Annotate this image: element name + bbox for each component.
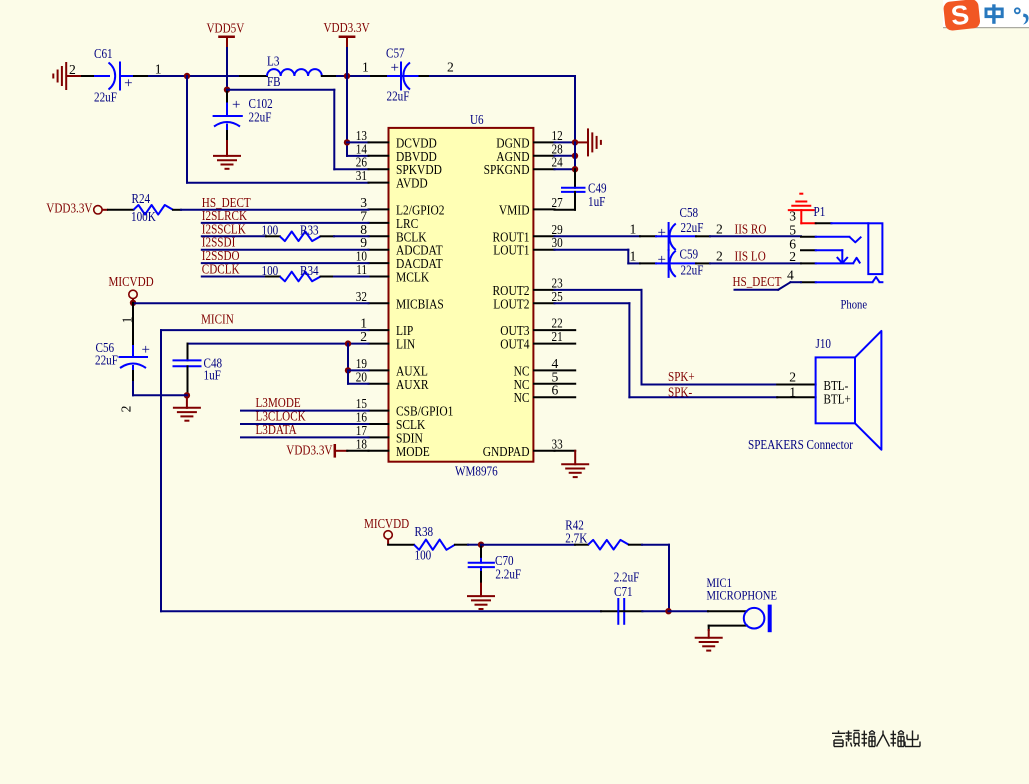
capacitor C57 xyxy=(371,60,420,90)
label WM8976 xyxy=(455,464,498,479)
svg-text:20: 20 xyxy=(356,369,367,384)
label U6 xyxy=(470,112,484,127)
svg-text:+: + xyxy=(391,60,399,76)
label 100 (R38) xyxy=(415,548,432,563)
label 100 (R34) xyxy=(262,263,279,278)
svg-text:U6: U6 xyxy=(470,112,484,127)
label J10 xyxy=(816,336,832,351)
svg-text:1: 1 xyxy=(630,221,637,236)
svg-text:AUXR: AUXR xyxy=(396,378,429,393)
wire xyxy=(642,545,669,612)
svg-text:2: 2 xyxy=(716,221,723,236)
resistor R42 xyxy=(575,540,642,550)
svg-text:CDCLK: CDCLK xyxy=(202,262,240,277)
svg-text:1uF: 1uF xyxy=(588,194,606,209)
wire xyxy=(346,48,348,76)
label C70 xyxy=(495,553,514,568)
wire xyxy=(555,141,576,143)
svg-text:VMID: VMID xyxy=(499,203,530,218)
pin 5 NC (U6 right) xyxy=(514,369,576,393)
label R42 xyxy=(565,518,584,533)
pin number 3 (P1) xyxy=(789,208,796,223)
pin 11 MCLK (U6 left) xyxy=(356,262,429,286)
wire xyxy=(202,222,369,224)
wire xyxy=(82,75,95,77)
wire xyxy=(696,235,801,237)
wire xyxy=(642,610,668,612)
power port MICVDD (bottom) xyxy=(364,516,409,545)
label 22uF (C58) xyxy=(681,220,704,235)
svg-text:R38: R38 xyxy=(415,524,434,539)
label C57 xyxy=(386,46,405,61)
svg-text:27: 27 xyxy=(552,195,563,210)
svg-text:22uF: 22uF xyxy=(94,89,117,104)
label P1 xyxy=(814,204,826,219)
resistor R38 xyxy=(388,540,468,550)
wire xyxy=(624,610,642,612)
net label I2SLRCK xyxy=(202,208,247,223)
wire xyxy=(481,544,575,546)
junction dot xyxy=(572,153,578,159)
pin number 6 (P1) xyxy=(789,237,796,252)
net label CDCLK xyxy=(202,262,240,277)
svg-text:1: 1 xyxy=(630,248,637,263)
svg-text:R34: R34 xyxy=(300,263,319,278)
svg-text:R24: R24 xyxy=(132,191,151,206)
net label SPK+ xyxy=(668,369,695,384)
connector P1 phone jack body xyxy=(816,223,883,274)
resistor R33 xyxy=(266,232,334,242)
svg-text:+: + xyxy=(658,225,666,241)
junction dot xyxy=(130,300,136,306)
wire xyxy=(202,235,266,237)
wire xyxy=(187,76,369,183)
net label L3MODE xyxy=(256,395,301,410)
wire xyxy=(735,282,802,290)
wire xyxy=(133,382,187,395)
wire xyxy=(227,90,369,170)
svg-text:BTL+: BTL+ xyxy=(824,391,851,406)
svg-text:FB: FB xyxy=(267,74,281,89)
label Phone xyxy=(841,297,868,312)
wire xyxy=(202,262,369,264)
wire xyxy=(347,450,368,452)
ground (below C70) xyxy=(467,584,495,609)
pin 23 ROUT2 (U6 right) xyxy=(493,275,563,299)
pin 2 LIN (U6 left) xyxy=(360,329,415,353)
label 22uF (C57) xyxy=(387,89,410,104)
label FB xyxy=(267,74,281,89)
pin 8 BCLK (U6 left) xyxy=(360,222,426,246)
label 2.2uF (C70) xyxy=(495,567,521,582)
capacitor C71 xyxy=(618,599,624,624)
label R33 xyxy=(300,223,319,238)
net label I2SSDI xyxy=(202,235,236,250)
pin 17 SDIN (U6 left) xyxy=(356,423,423,447)
svg-text:2: 2 xyxy=(360,329,367,344)
svg-text:MCLK: MCLK xyxy=(396,271,429,286)
svg-text:+: + xyxy=(124,76,132,92)
svg-text:2: 2 xyxy=(69,62,76,77)
wire xyxy=(555,303,778,397)
capacitor C49 xyxy=(555,169,585,210)
label 22uF (C61) xyxy=(94,89,117,104)
svg-text:2.2uF: 2.2uF xyxy=(495,567,521,582)
pin 4 NC (U6 right) xyxy=(514,356,576,380)
capacitor C48 xyxy=(174,344,201,396)
svg-text:2: 2 xyxy=(119,405,134,412)
wire xyxy=(468,544,481,546)
junction dot xyxy=(665,608,671,614)
label 100K (R24) xyxy=(131,209,156,224)
svg-text:P1: P1 xyxy=(814,204,826,219)
svg-text:MICVDD: MICVDD xyxy=(364,516,409,531)
junction dot xyxy=(184,73,190,79)
label MICROPHONE xyxy=(707,588,778,603)
power port VDD3.3V (top) xyxy=(324,20,370,48)
pin 21 OUT4 (U6 right) xyxy=(500,329,575,353)
pin 1 LIP (U6 left) xyxy=(360,316,413,340)
svg-text:24: 24 xyxy=(552,155,563,170)
wire xyxy=(202,276,266,278)
pin 7 LRC (U6 left) xyxy=(360,208,418,232)
pin number 4 (P1) xyxy=(787,267,794,282)
net label L3DATA xyxy=(256,422,297,437)
wire xyxy=(348,369,369,371)
svg-text:3: 3 xyxy=(789,208,796,223)
label C61 xyxy=(94,46,113,61)
wire xyxy=(347,344,349,371)
capacitor C56 xyxy=(120,303,150,382)
pin 2 contact (P1) xyxy=(801,258,860,264)
label 2.7K (R42) xyxy=(565,531,587,546)
pin 27 VMID (U6 right) xyxy=(499,195,563,219)
capacitor C58 xyxy=(640,223,696,250)
svg-text:SPK-: SPK- xyxy=(668,384,693,399)
svg-text:WM8976: WM8976 xyxy=(455,464,498,479)
svg-text:25: 25 xyxy=(552,289,563,304)
label C48 xyxy=(204,356,223,371)
resistor R34 xyxy=(266,272,334,282)
wire xyxy=(430,76,575,142)
wire xyxy=(555,250,641,264)
pin 33 GNDPAD (U6 right) xyxy=(483,436,563,460)
svg-text:MODE: MODE xyxy=(396,445,430,460)
svg-text:L3: L3 xyxy=(267,54,280,69)
junction dot xyxy=(345,367,351,373)
wire xyxy=(161,610,601,612)
wire xyxy=(348,370,369,383)
power port VDD3.3V (MODE pin) xyxy=(286,442,347,457)
title text (Chinese): audio input output xyxy=(832,731,920,747)
capacitor C59 xyxy=(640,250,696,277)
pin 28 AGND (U6 right) xyxy=(496,141,563,165)
net label I2SSDO xyxy=(202,248,240,263)
wire xyxy=(337,75,371,77)
ground (MIC1) xyxy=(695,630,723,651)
label 22uF (C59) xyxy=(681,262,704,277)
wire xyxy=(149,75,240,77)
junction dot xyxy=(572,139,578,145)
svg-text:22uF: 22uF xyxy=(95,353,118,368)
svg-text:22uF: 22uF xyxy=(681,220,704,235)
pin 13 DCVDD (U6 left) xyxy=(356,128,437,152)
wire xyxy=(226,48,228,90)
svg-text:LOUT2: LOUT2 xyxy=(493,297,529,312)
svg-text:S: S xyxy=(950,0,971,31)
pin number 2 (C59) xyxy=(716,248,723,263)
svg-text:C58: C58 xyxy=(680,205,699,220)
svg-text:22uF: 22uF xyxy=(387,89,410,104)
ground (below C48) xyxy=(173,395,201,420)
svg-text:VDD5V: VDD5V xyxy=(207,20,245,35)
capacitor C61 xyxy=(95,63,134,92)
pin 6 switch contact (P1) xyxy=(801,250,848,263)
op-amp U6 WM8976 body xyxy=(389,128,534,462)
pin 20 AUXR (U6 left) xyxy=(356,369,429,393)
pin number 1 (C59) xyxy=(630,248,637,263)
pin number 2 (C61) xyxy=(69,62,76,77)
junction dot xyxy=(344,139,350,145)
pin 2 (J10) xyxy=(777,369,815,384)
svg-text:GNDPAD: GNDPAD xyxy=(483,445,530,460)
microphone MIC1 xyxy=(708,605,772,633)
label C56 xyxy=(96,340,115,355)
ground (below C102) xyxy=(213,141,241,169)
svg-text:2: 2 xyxy=(447,60,454,75)
label 22uF (C56) xyxy=(95,353,118,368)
svg-text:2.7K: 2.7K xyxy=(565,531,587,546)
wire xyxy=(188,343,369,345)
wire xyxy=(555,142,576,169)
svg-text:1uF: 1uF xyxy=(204,368,222,383)
svg-text:30: 30 xyxy=(552,235,563,250)
svg-text:AVDD: AVDD xyxy=(396,177,428,192)
svg-text:R33: R33 xyxy=(300,223,319,238)
svg-text:SPEAKERS Connector: SPEAKERS Connector xyxy=(748,437,853,452)
svg-text:IIS RO: IIS RO xyxy=(735,221,767,236)
pin number 2 (C56) xyxy=(119,405,134,412)
svg-text:MICROPHONE: MICROPHONE xyxy=(707,588,778,603)
pin 15 CSB/GPIO1 (U6 left) xyxy=(356,396,454,420)
label 2.2uF (C71) xyxy=(614,570,640,585)
wire xyxy=(669,610,709,612)
svg-text:100K: 100K xyxy=(131,209,156,224)
junction dot xyxy=(345,340,351,346)
wire xyxy=(181,209,369,211)
label 100 (R33) xyxy=(262,223,279,238)
label MIC1 xyxy=(707,575,733,590)
svg-text:+: + xyxy=(232,97,240,113)
pin number 5 (P1) xyxy=(789,223,796,238)
net label I2SSCLK xyxy=(202,221,246,236)
connector J10 speaker body xyxy=(816,331,882,450)
ground (GNDPAD) xyxy=(555,451,590,477)
label 1uF (C49) xyxy=(588,194,606,209)
svg-text:32: 32 xyxy=(356,289,367,304)
pin 6 NC (U6 right) xyxy=(514,383,576,407)
svg-text:11: 11 xyxy=(356,262,367,277)
pin 18 MODE (U6 left) xyxy=(356,436,430,460)
pin 30 LOUT1 (U6 right) xyxy=(493,235,563,259)
net label HS_DECT xyxy=(202,195,251,210)
capacitor C70 xyxy=(469,545,494,584)
net label L3CLOCK xyxy=(256,409,306,424)
watermark blue zhong glyph xyxy=(986,4,1002,24)
svg-text:100: 100 xyxy=(262,263,279,278)
pin 22 OUT3 (U6 right) xyxy=(500,316,575,340)
pin number 1 (C58) xyxy=(630,221,637,236)
svg-text:SPKGND: SPKGND xyxy=(484,163,530,178)
pin 24 SPKGND (U6 right) xyxy=(484,155,563,179)
junction dot xyxy=(224,87,230,93)
svg-text:+: + xyxy=(142,342,150,358)
pin 5 contact (P1) xyxy=(801,237,861,243)
ground (DGND) xyxy=(575,128,601,156)
pin number 2 (P1) xyxy=(789,249,796,264)
pin 4 sleeve contact (P1) xyxy=(801,277,882,282)
label SPEAKERS Connector xyxy=(748,437,853,452)
svg-text:100: 100 xyxy=(262,223,279,238)
pin 10 DACDAT (U6 left) xyxy=(356,249,443,273)
svg-text:C61: C61 xyxy=(94,46,113,61)
pin 25 LOUT2 (U6 right) xyxy=(493,289,563,313)
pin number 1 (C56) xyxy=(120,317,135,324)
svg-text:1: 1 xyxy=(362,60,369,75)
label C59 xyxy=(680,247,699,262)
label 22uF (C102) xyxy=(249,110,272,125)
label C49 xyxy=(588,181,607,196)
power port VDD5V xyxy=(207,20,245,48)
svg-text:C57: C57 xyxy=(386,46,405,61)
svg-text:21: 21 xyxy=(552,329,563,344)
svg-text:6: 6 xyxy=(552,383,559,398)
net label MICIN xyxy=(201,312,234,327)
wire xyxy=(133,302,369,304)
wire xyxy=(601,610,618,612)
svg-text:VDD3.3V: VDD3.3V xyxy=(324,20,370,35)
wire xyxy=(420,75,431,77)
net label IIS_RO xyxy=(735,221,767,236)
label R34 xyxy=(300,263,319,278)
resistor R24 xyxy=(108,205,181,215)
svg-text:2: 2 xyxy=(789,369,796,384)
svg-text:MICVDD: MICVDD xyxy=(109,274,154,289)
svg-text:22uF: 22uF xyxy=(249,110,272,125)
svg-text:VDD3.3V: VDD3.3V xyxy=(286,442,332,457)
ground (left of C61) xyxy=(53,62,82,90)
pin 32 MICBIAS (U6 left) xyxy=(356,289,444,313)
svg-text:4: 4 xyxy=(787,267,794,282)
wire xyxy=(241,410,369,412)
pin 12 DGND (U6 right) xyxy=(496,128,563,152)
pin number 1 (C57) xyxy=(362,60,369,75)
svg-text:L3DATA: L3DATA xyxy=(256,422,297,437)
wire xyxy=(347,76,369,156)
label C58 xyxy=(680,205,699,220)
svg-text:5: 5 xyxy=(789,223,796,238)
wire xyxy=(555,290,778,385)
wire xyxy=(161,330,369,611)
label L3 xyxy=(267,54,280,69)
pin 14 DBVDD (U6 left) xyxy=(356,141,437,165)
junction dot xyxy=(572,166,578,172)
svg-text:Phone: Phone xyxy=(841,297,868,312)
net label HS_DECT (P1) xyxy=(733,274,782,289)
pin 31 AVDD (U6 left) xyxy=(356,168,428,192)
label BTL+ xyxy=(824,391,851,406)
svg-text:1: 1 xyxy=(789,384,796,399)
svg-text:NC: NC xyxy=(514,391,530,406)
wire xyxy=(241,423,369,425)
junction dot xyxy=(184,392,190,398)
wire xyxy=(555,235,641,237)
watermark blue degree and comma glyphs xyxy=(1015,8,1029,24)
label C71 xyxy=(614,584,633,599)
pin 3 L2/GPIO2 (U6 left) xyxy=(360,195,444,219)
svg-text:LOUT1: LOUT1 xyxy=(493,244,529,259)
pin 16 SCLK (U6 left) xyxy=(356,410,426,434)
svg-text:OUT4: OUT4 xyxy=(500,338,529,353)
pin 1 (J10) xyxy=(777,384,815,399)
label C102 xyxy=(249,96,273,111)
pin number 1 (C61) xyxy=(155,62,162,77)
svg-text:MICIN: MICIN xyxy=(201,312,234,327)
svg-text:LIN: LIN xyxy=(396,338,415,353)
capacitor C102 xyxy=(214,90,242,141)
wire xyxy=(241,436,369,438)
svg-text:C59: C59 xyxy=(680,247,699,262)
label R24 xyxy=(132,191,151,206)
svg-text:1: 1 xyxy=(155,62,162,77)
pin number 2 (C57) xyxy=(447,60,454,75)
net label SPK- xyxy=(668,384,693,399)
pin 29 ROUT1 (U6 right) xyxy=(493,222,563,246)
svg-text:33: 33 xyxy=(552,436,563,451)
pin 26 SPKVDD (U6 left) xyxy=(356,155,442,179)
watermark orange S icon xyxy=(943,0,981,31)
pin 19 AUXL (U6 left) xyxy=(356,356,428,380)
inductor L3 xyxy=(240,69,337,76)
svg-text:18: 18 xyxy=(356,436,367,451)
net label IIS_LO xyxy=(735,248,766,263)
wire xyxy=(202,249,369,251)
svg-text:2: 2 xyxy=(789,249,796,264)
power port VDD3.3V (left) xyxy=(46,201,108,216)
power port MICVDD xyxy=(109,274,154,303)
svg-text:2.2uF: 2.2uF xyxy=(614,570,640,585)
svg-text:22uF: 22uF xyxy=(681,262,704,277)
wire xyxy=(134,75,149,77)
wire xyxy=(555,155,576,157)
svg-text:J10: J10 xyxy=(816,336,832,351)
svg-text:2: 2 xyxy=(716,248,723,263)
junction dot xyxy=(344,73,350,79)
wire xyxy=(334,235,369,237)
svg-text:HS_DECT: HS_DECT xyxy=(733,274,782,289)
svg-text:+: + xyxy=(658,252,666,268)
svg-text:31: 31 xyxy=(356,168,367,183)
svg-text:SPK+: SPK+ xyxy=(668,369,695,384)
svg-text:VDD3.3V: VDD3.3V xyxy=(46,201,92,216)
earth ground (P1 pin 3, red) xyxy=(788,194,816,224)
wire xyxy=(347,141,369,143)
label R38 xyxy=(415,524,434,539)
pin 9 ADCDAT (U6 left) xyxy=(360,235,443,259)
pin number 2 (C58) xyxy=(716,221,723,236)
svg-text:100: 100 xyxy=(415,548,432,563)
wire xyxy=(696,262,801,264)
